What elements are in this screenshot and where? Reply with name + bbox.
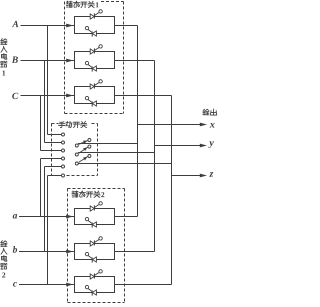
switch S2 throw contact circle bbox=[88, 145, 91, 148]
wire output y bbox=[155, 145, 200, 147]
label: input circuit 1 (vertical) bbox=[1, 39, 7, 45]
wire switch S3 to bus 3 bbox=[78, 163, 171, 165]
thyristor (bottom arm, conducts right-to-left) bbox=[92, 66, 96, 71]
gate terminal circle (bottom) bbox=[85, 61, 88, 64]
thyristor (bottom arm, conducts right-to-left) bbox=[92, 101, 96, 106]
thyristor (bottom arm, conducts right-to-left) bbox=[92, 222, 96, 227]
gate terminal circle (bottom) bbox=[85, 26, 88, 29]
wire C input bbox=[21, 95, 75, 97]
fixed contact A bbox=[62, 133, 65, 136]
switch S1 pole circle bbox=[75, 144, 78, 147]
label: output (chinese) bbox=[203, 109, 209, 115]
thyristor (top arm, conducts left-to-right) bbox=[90, 84, 94, 89]
gate terminal circle (bottom) bbox=[85, 252, 88, 255]
arrow into U3 bbox=[66, 94, 73, 98]
svg-text:z: z bbox=[209, 169, 214, 180]
wire U2 output bbox=[115, 60, 155, 62]
wire stub to fixed contact c bbox=[48, 175, 62, 177]
svg-text:C: C bbox=[12, 92, 19, 102]
wire output x bbox=[138, 124, 200, 126]
fixed contact C bbox=[62, 149, 65, 152]
wire stub to fixed contact b bbox=[45, 166, 62, 168]
wire B input bbox=[21, 60, 75, 62]
wire U6 output bbox=[115, 284, 172, 286]
gate terminal circle (top) bbox=[99, 202, 102, 205]
svg-text:B: B bbox=[11, 56, 18, 66]
tap wire to node b bbox=[44, 167, 46, 252]
SCR pair module U6 (phase c) bbox=[75, 277, 115, 293]
label: static switch 1 bbox=[66, 1, 72, 7]
gate terminal circle (top) bbox=[99, 270, 102, 273]
svg-text:2: 2 bbox=[2, 270, 6, 279]
fixed contact b bbox=[62, 165, 65, 168]
svg-text:y: y bbox=[208, 138, 214, 149]
bus 1 vertical (phase x) bbox=[137, 26, 139, 217]
label: static switch 2 bbox=[72, 191, 78, 197]
thyristor (top arm, conducts left-to-right) bbox=[90, 241, 94, 246]
wire b input bbox=[19, 251, 74, 253]
thyristor (top arm, conducts left-to-right) bbox=[90, 206, 94, 211]
arrow output x bbox=[200, 124, 202, 126]
thyristor (top arm, conducts left-to-right) bbox=[90, 274, 94, 279]
SCR pair module U5 (phase b) bbox=[75, 244, 115, 260]
bus 2 vertical (phase y) bbox=[154, 61, 156, 252]
tap wire from node A bbox=[47, 26, 49, 135]
switch S3 blade with arrow bbox=[83, 157, 87, 161]
wire stub to fixed contact C bbox=[41, 150, 62, 152]
gate terminal circle (top) bbox=[99, 10, 102, 13]
svg-text:a: a bbox=[13, 211, 18, 221]
thyristor (bottom arm, conducts right-to-left) bbox=[92, 257, 96, 262]
SCR pair module U1 (phase A) bbox=[75, 17, 115, 34]
tap wire to node c bbox=[47, 176, 49, 285]
arrow output z bbox=[200, 175, 202, 177]
arrow into U5 bbox=[66, 250, 73, 254]
fixed contact B bbox=[62, 141, 65, 144]
label: manual switch bbox=[59, 122, 65, 128]
wire U5 output bbox=[115, 251, 155, 253]
svg-text:1: 1 bbox=[95, 0, 99, 9]
static switch 2 enclosure (dashed) bbox=[68, 188, 125, 190]
wire a input bbox=[19, 216, 74, 218]
wire stub to fixed contact B bbox=[45, 142, 62, 144]
switch S1 throw contact circle bbox=[88, 139, 91, 142]
gate terminal circle (top) bbox=[99, 237, 102, 240]
switch S3 pole circle bbox=[75, 162, 78, 165]
SCR pair module U4 (phase a) bbox=[75, 209, 115, 225]
fixed contact a bbox=[62, 157, 65, 160]
wire stub to fixed contact A bbox=[48, 134, 62, 136]
thyristor (top arm, conducts left-to-right) bbox=[90, 14, 94, 19]
wire switch S1 to bus 1 bbox=[78, 143, 137, 145]
gate terminal circle (bottom) bbox=[85, 96, 88, 99]
arrow output y bbox=[200, 145, 202, 147]
tap wire from node B bbox=[44, 61, 46, 143]
svg-text:b: b bbox=[13, 246, 18, 256]
arrow into U2 bbox=[66, 59, 73, 63]
svg-text:2: 2 bbox=[101, 190, 105, 199]
fixed contact c bbox=[62, 174, 65, 177]
arrow into U6 bbox=[66, 283, 73, 287]
wire stub to fixed contact a bbox=[41, 158, 62, 160]
wire switch S2 to bus 2 bbox=[78, 152, 154, 154]
svg-text:x: x bbox=[209, 120, 215, 131]
manual switch enclosure (dashed) bbox=[52, 123, 59, 125]
static switch 1 enclosure (dashed) bbox=[101, 1, 124, 3]
thyristor (bottom arm, conducts right-to-left) bbox=[92, 290, 96, 295]
switch S1 blade with arrow bbox=[83, 141, 87, 144]
thyristor (bottom arm, conducts right-to-left) bbox=[92, 31, 96, 36]
wire A input bbox=[21, 25, 75, 27]
wire output z bbox=[172, 175, 200, 177]
tap wire to node a bbox=[40, 159, 42, 217]
switch S2 blade with arrow bbox=[83, 147, 87, 151]
gate terminal circle (bottom) bbox=[85, 217, 88, 220]
gate terminal circle (top) bbox=[99, 80, 102, 83]
gate terminal circle (bottom) bbox=[85, 285, 88, 288]
SCR pair module U2 (phase B) bbox=[75, 52, 115, 69]
arrow into U4 bbox=[66, 215, 73, 219]
label: input circuit 2 (vertical) bbox=[1, 241, 7, 247]
switch S3 throw contact circle bbox=[88, 155, 91, 158]
wire U3 output bbox=[115, 95, 172, 97]
svg-text:1: 1 bbox=[2, 68, 6, 77]
wire U1 output bbox=[115, 25, 138, 27]
wire U4 output bbox=[115, 216, 138, 218]
wire c input bbox=[19, 284, 74, 286]
bus 3 vertical (phase z) bbox=[171, 96, 173, 285]
arrow into U1 bbox=[66, 24, 73, 28]
thyristor (top arm, conducts left-to-right) bbox=[90, 49, 94, 54]
switch S2 pole circle bbox=[75, 153, 78, 156]
gate terminal circle (top) bbox=[99, 45, 102, 48]
SCR pair module U3 (phase C) bbox=[75, 87, 115, 104]
svg-text:A: A bbox=[11, 20, 18, 30]
tap wire from node C bbox=[40, 96, 42, 151]
